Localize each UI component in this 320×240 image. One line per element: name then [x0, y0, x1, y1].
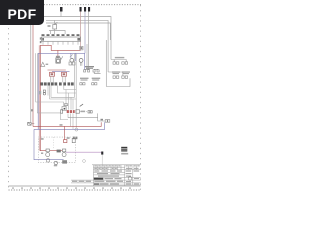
wire connector J1 drop: [60, 12, 62, 17]
wire L1 top: [44, 17, 111, 60]
wire mid horizontal 99: [50, 98, 77, 100]
wire magenta signal: [66, 151, 101, 153]
wire bus corners mid: [48, 86, 76, 100]
breaker F2: [62, 72, 67, 76]
wire red feeder mid: [40, 45, 46, 150]
contact box at red end: [80, 46, 83, 50]
label left of Q2: [41, 153, 43, 154]
starter flag: [61, 56, 63, 59]
terminal row X2: [41, 82, 74, 85]
relay box pair: [69, 62, 75, 65]
wire red drop to fuse: [64, 126, 66, 139]
wire blue link row: [52, 71, 70, 73]
relay K1: [53, 22, 58, 29]
wire PE left feeder: [30, 25, 32, 122]
terminal strip X1: [42, 37, 81, 41]
X1 end mark right: [77, 38, 80, 41]
stamp caption: [121, 153, 128, 155]
label F3: [41, 138, 44, 140]
aux box A2 dot: [64, 108, 66, 110]
wire L3 right bus: [105, 40, 107, 87]
wire red link row: [48, 69, 66, 71]
label left F: [31, 109, 33, 111]
title block texts lower: [72, 178, 123, 185]
connector J3: [84, 7, 86, 12]
wire blue neutral bus: [38, 53, 84, 70]
meter P1: [70, 58, 74, 62]
node circle N: [75, 128, 78, 131]
wire N drop: [50, 31, 52, 35]
breaker F2 marks: [63, 73, 66, 75]
frame ruler right: [140, 5, 142, 190]
sheet background: [0, 0, 149, 198]
wire cluster lower link: [60, 113, 68, 120]
bottom ruler numbers: [12, 187, 131, 188]
connector J1: [60, 7, 63, 12]
mid box pair: [105, 120, 110, 123]
X1 end mark left: [42, 38, 44, 41]
wire blue bottom: [34, 129, 64, 159]
pump M1 terminal boxes: [80, 83, 97, 85]
warning triangle: [41, 62, 45, 66]
contact box mark: [81, 47, 83, 49]
label feeder refs: [39, 91, 41, 94]
contactor Q1: [61, 110, 80, 114]
label immersion sensors: [112, 71, 130, 74]
label connection box: [115, 57, 125, 58]
wire sensors feed: [108, 72, 123, 76]
PDF badge: [0, 0, 44, 25]
fuse F4: [72, 138, 75, 142]
enclosure dashed box: [38, 137, 75, 163]
label H mid: [101, 119, 104, 121]
wire red distribution: [33, 122, 101, 126]
wire cluster feeds: [66, 90, 73, 130]
wire red feeder mid 2: [38, 45, 40, 150]
wire L2 top: [46, 20, 108, 72]
wire pump feed grey: [86, 44, 88, 70]
node ref A: [83, 160, 86, 163]
stamp logo dark: [121, 147, 127, 152]
wire conn box stub: [113, 60, 115, 62]
wire grey aux feeder 1: [36, 53, 64, 106]
label Q1: [81, 111, 86, 113]
wire red link bottom: [50, 150, 62, 152]
label motor M 3~: [62, 160, 67, 163]
control box A1: [64, 104, 67, 106]
title block grid: [71, 165, 141, 186]
title block right texts: [126, 178, 139, 185]
motor starter Q3: [62, 149, 66, 157]
meter P2: [79, 59, 83, 63]
disconnect switch S0: [28, 122, 31, 125]
lamp H2: [46, 159, 49, 162]
wire pump drop 2: [75, 53, 77, 128]
wire blue stub 2: [75, 53, 77, 61]
wire red branch down: [57, 50, 59, 58]
label under H1: [54, 165, 57, 166]
frame bottom line: [9, 185, 141, 187]
wire blue stub 1: [70, 53, 72, 58]
wire L3 top: [46, 23, 110, 40]
wire blue distribution: [34, 122, 105, 129]
terminal strip X1 labels: [42, 34, 80, 36]
breaker F1: [50, 72, 55, 76]
sensor terminal boxes: [113, 76, 128, 78]
label X above red: [60, 124, 63, 126]
connector J4: [88, 7, 90, 12]
connector X9 black: [101, 152, 103, 155]
wire J4 drop: [88, 12, 90, 70]
meter P2 marks: [80, 62, 82, 65]
arrow stroke: [80, 104, 83, 106]
label X1 left a: [40, 37, 42, 39]
wire relay K1 drop: [54, 20, 56, 24]
label Q2 dark: [57, 150, 61, 153]
wire J2 drop red: [80, 12, 82, 51]
aux contact pair: [88, 111, 92, 113]
wire relay K1 out: [54, 29, 56, 34]
label above fuse: [67, 137, 70, 139]
fuse F3 red: [64, 140, 67, 143]
wire grey mid link: [68, 113, 98, 117]
breaker F1 marks: [51, 73, 54, 75]
wire blue left feeder: [37, 53, 39, 129]
switch S1 diagonal: [70, 54, 73, 57]
connection box terminals: [113, 62, 128, 64]
pump aux box row: [84, 69, 101, 73]
wire conn box feed: [111, 60, 126, 62]
wire grey aux feeder 2: [37, 53, 60, 113]
wire S0 link: [31, 123, 34, 125]
frame ruler bottom: [9, 189, 141, 191]
mechanical link dashed: [80, 111, 88, 113]
wire X9 drop: [101, 155, 103, 165]
PDF badge label: [0, 0, 44, 25]
label K1: [48, 25, 51, 27]
label X1 left b: [40, 41, 42, 43]
terminal strip X1 pins: [43, 41, 78, 44]
label above starter: [56, 56, 60, 58]
meter U1: [43, 90, 45, 95]
title block stamp circle: [128, 177, 132, 181]
wire red left feeder: [32, 25, 34, 126]
title block page no: [94, 183, 99, 185]
motor starter circle: [56, 58, 60, 63]
label junction box: [85, 66, 94, 69]
motor starter Q2: [46, 149, 50, 157]
connector J2: [80, 7, 82, 12]
lamp H1: [54, 161, 57, 164]
branch stubs into enclosure: [73, 137, 77, 140]
frame ruler left: [8, 28, 10, 190]
title block logo: [94, 178, 104, 180]
frame ruler top: [36, 4, 141, 6]
label pump M1: [80, 78, 100, 81]
wire sensors return: [106, 78, 130, 86]
wire J3 drop blue: [84, 12, 86, 54]
wire N horizontal: [49, 31, 65, 35]
title block texts row1: [94, 165, 139, 176]
label near triangle: [46, 64, 49, 65]
dashed divider: [53, 137, 55, 148]
wire grey link to pair: [98, 118, 106, 121]
wire pump drop 1: [74, 53, 76, 97]
aux box A2: [62, 107, 66, 111]
wire red phase from X1: [40, 45, 80, 50]
breaker output stubs: [51, 76, 65, 82]
